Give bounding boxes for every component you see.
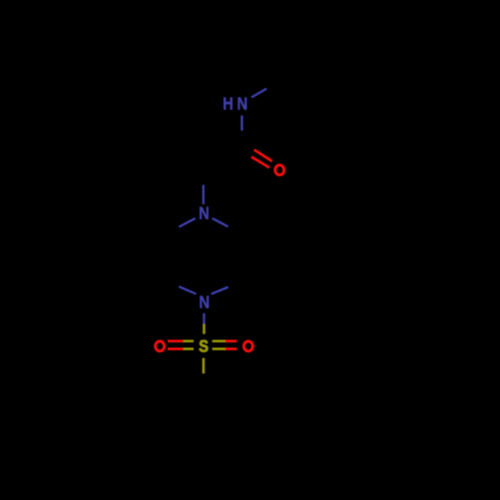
svg-text:H: H	[223, 95, 234, 114]
svg-text:N: N	[237, 95, 248, 114]
svg-text:S: S	[199, 337, 209, 356]
svg-text:N: N	[199, 204, 210, 223]
svg-text:N: N	[199, 293, 210, 312]
